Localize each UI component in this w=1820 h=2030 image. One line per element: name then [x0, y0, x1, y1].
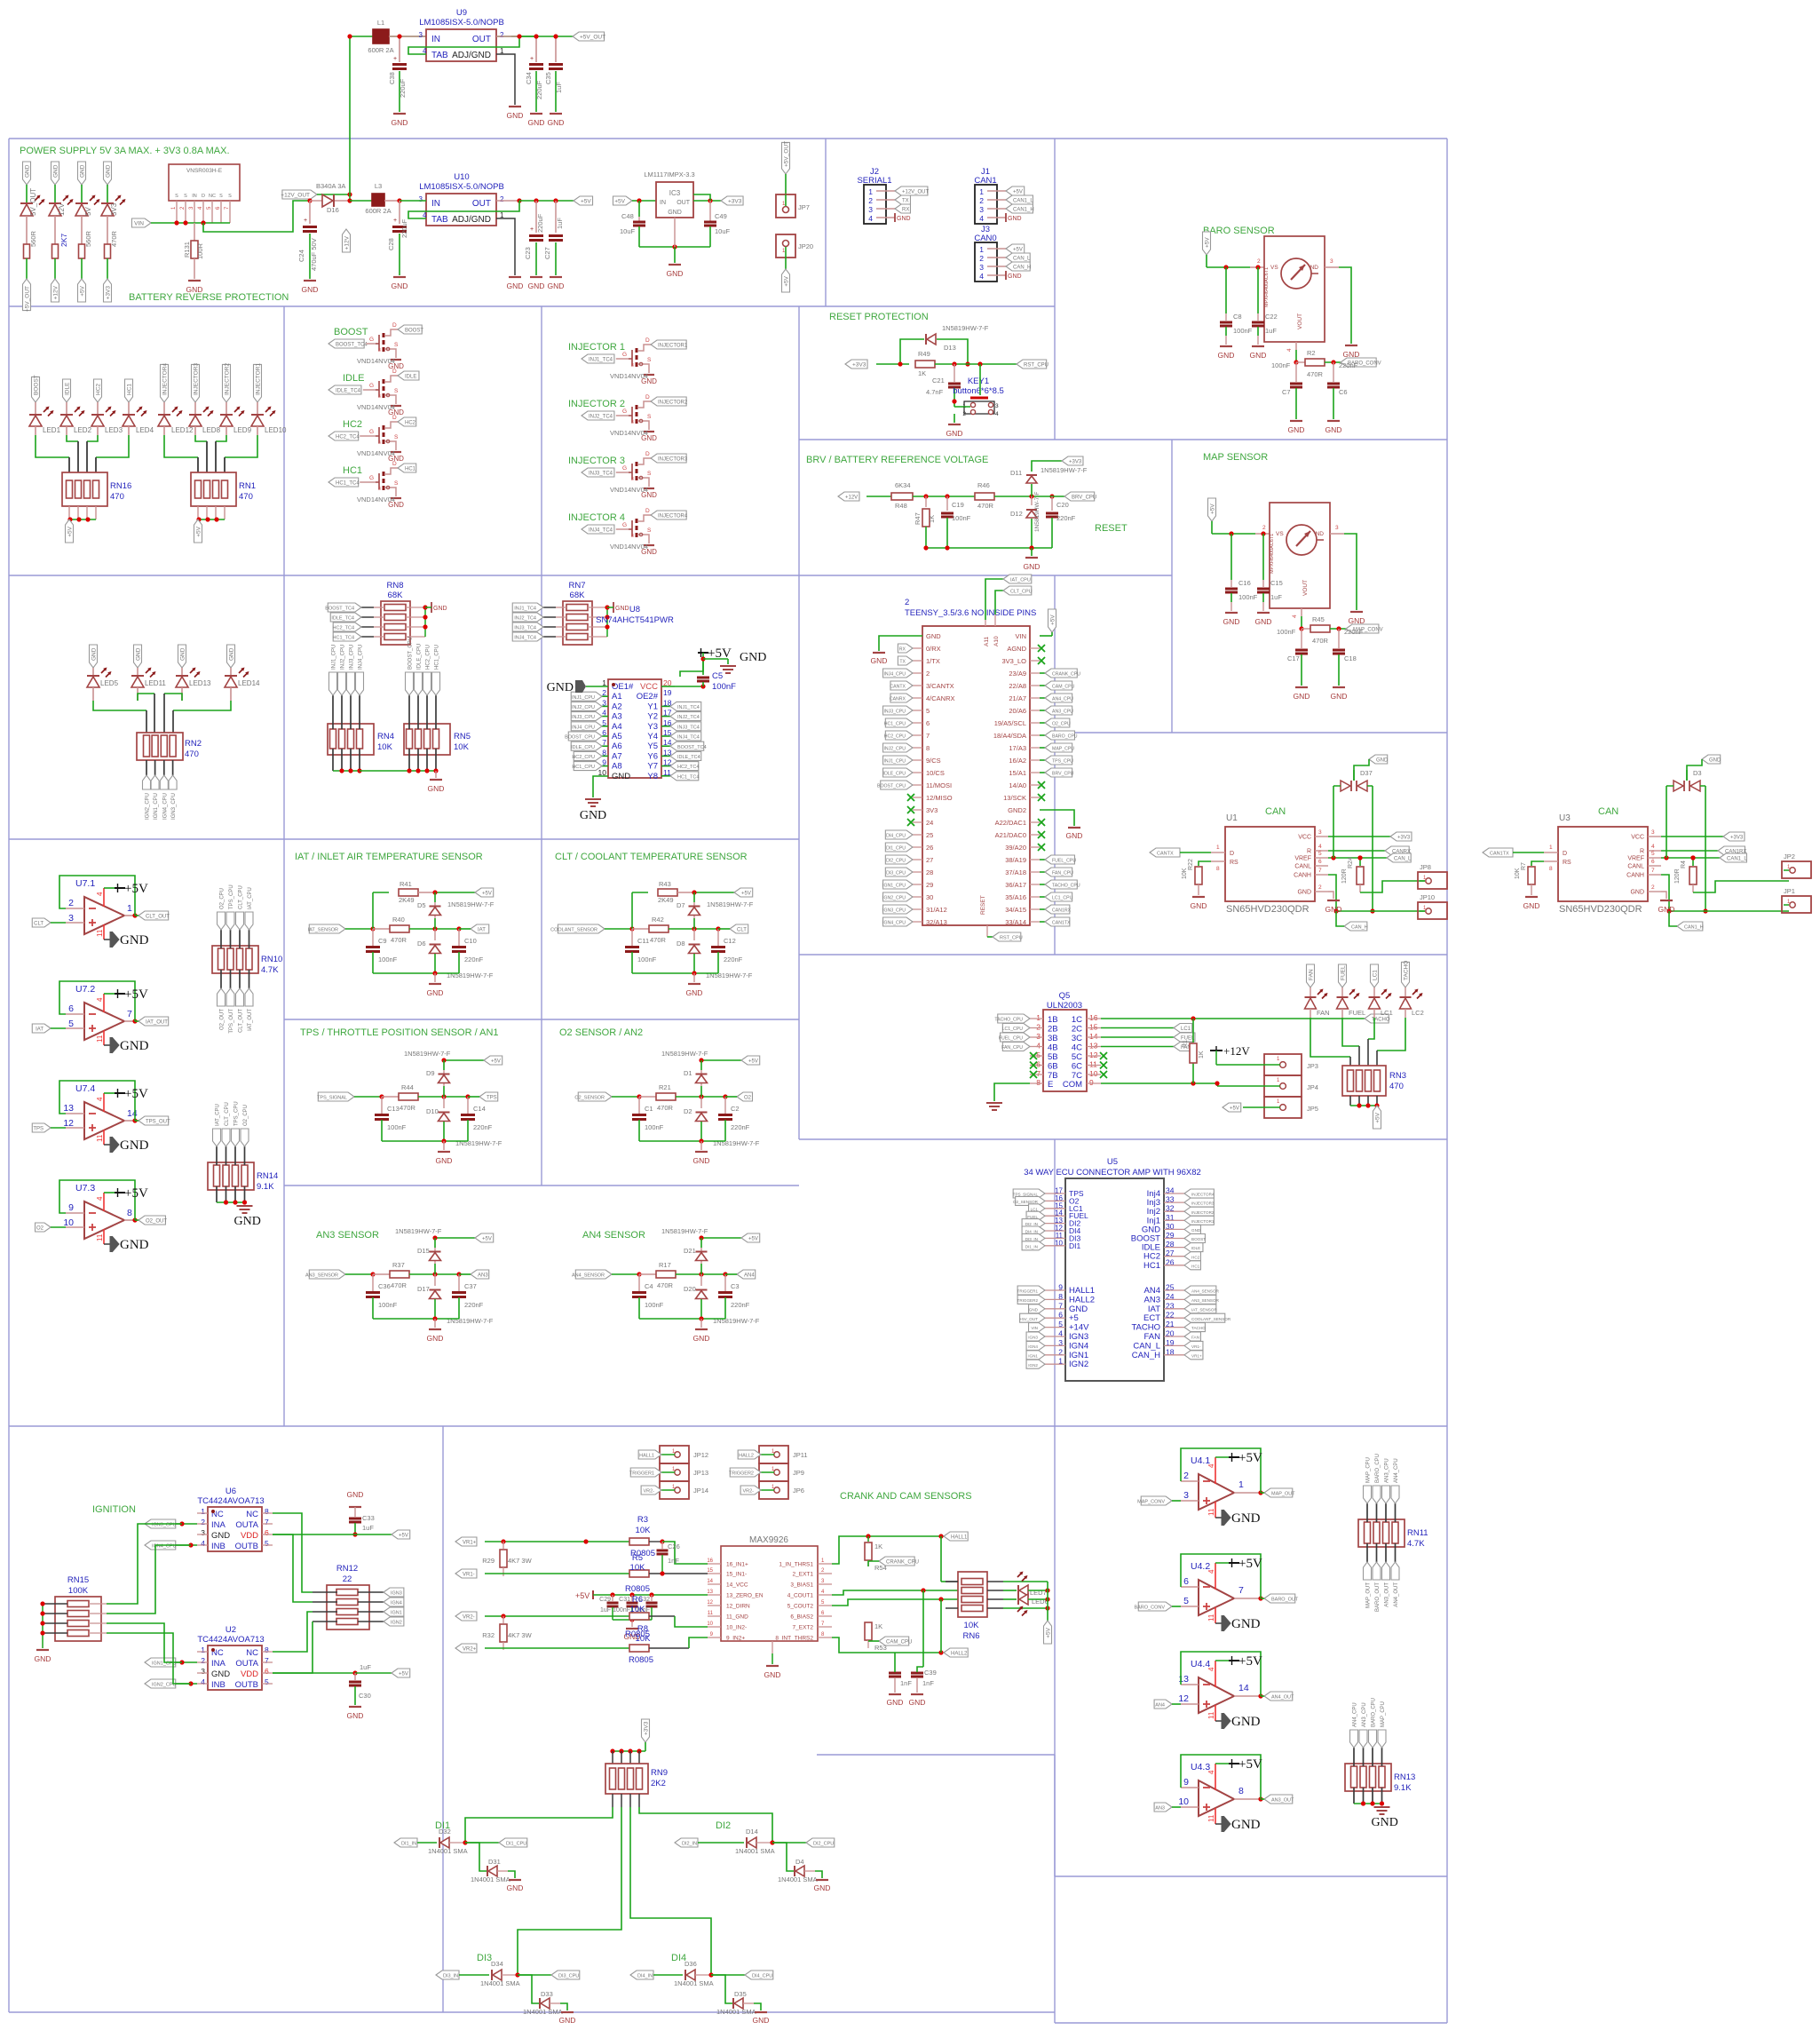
svg-text:INB: INB — [211, 1542, 226, 1551]
led LED10 — [251, 363, 287, 435]
svg-text:36/A17: 36/A17 — [1005, 881, 1026, 889]
svg-text:470R: 470R — [110, 230, 118, 247]
svg-text:IGN4_CPU: IGN4_CPU — [162, 793, 168, 820]
power +12V uln — [1210, 1044, 1254, 1065]
svg-text:GND: GND — [1029, 1307, 1039, 1312]
svg-text:470R: 470R — [400, 1104, 416, 1112]
svg-text:FAN: FAN — [1144, 1332, 1161, 1342]
svg-text:JP10: JP10 — [1420, 893, 1435, 901]
svg-text:FUEL_CPU: FUEL_CPU — [999, 1036, 1023, 1042]
inductor L3 — [350, 182, 402, 215]
capacitor C19 — [941, 496, 971, 548]
flag LC1 row — [1101, 1024, 1192, 1033]
svg-text:6C: 6C — [1072, 1062, 1082, 1072]
svg-text:32/A13: 32/A13 — [926, 918, 947, 926]
svg-text:1N5819HW-7-F: 1N5819HW-7-F — [661, 1227, 708, 1235]
svg-text:E: E — [1048, 1080, 1053, 1090]
svg-text:GND: GND — [1376, 758, 1389, 764]
svg-text:RST_CPU: RST_CPU — [1024, 363, 1048, 369]
svg-text:LC1_CPU: LC1_CPU — [1052, 896, 1073, 901]
gnd BRV — [1024, 548, 1041, 571]
svg-text:100nF: 100nF — [613, 1607, 630, 1614]
regulator U10 — [400, 172, 504, 226]
connector J1 CAN1 — [974, 167, 1033, 224]
svg-text:+5V: +5V — [196, 526, 202, 536]
svg-text:JP13: JP13 — [693, 1469, 708, 1477]
svg-text:10K: 10K — [630, 1563, 646, 1573]
svg-text:37/A18: 37/A18 — [1005, 868, 1026, 876]
svg-text:BOOST_TC4: BOOST_TC4 — [336, 343, 368, 348]
svg-text:BARO_OUT: BARO_OUT — [1271, 1598, 1299, 1603]
jumper JP5 — [1223, 1097, 1318, 1118]
svg-text:7: 7 — [1651, 868, 1655, 874]
svg-text:Q5: Q5 — [1059, 991, 1071, 1001]
transistor driver BOOST — [328, 322, 423, 370]
wire RN6 row1 to HALL1 — [941, 1536, 958, 1582]
svg-text:R42: R42 — [652, 916, 664, 924]
svg-text:11: 11 — [1207, 1814, 1215, 1822]
svg-text:+3V3: +3V3 — [852, 362, 866, 369]
svg-text:O2_CPU: O2_CPU — [220, 888, 226, 909]
svg-text:2B: 2B — [1048, 1025, 1058, 1035]
gnd C5 right — [703, 651, 766, 673]
svg-text:GND: GND — [1223, 617, 1240, 626]
transistor driver IDLE — [328, 369, 419, 416]
svg-text:U3: U3 — [1559, 813, 1571, 823]
svg-text:FAN: FAN — [1191, 1336, 1199, 1340]
capacitor C33 and +5V U6 — [273, 1490, 410, 1539]
svg-text:INJ2_CPU: INJ2_CPU — [341, 645, 346, 670]
svg-text:2: 2 — [1318, 884, 1322, 891]
svg-text:1N5819HW-7-F: 1N5819HW-7-F — [395, 1227, 442, 1235]
wire COM vertical — [1101, 1019, 1217, 1086]
svg-text:IAT_CPU: IAT_CPU — [1010, 578, 1031, 583]
svg-text:2: 2 — [979, 254, 984, 263]
svg-text:CLT_OUT: CLT_OUT — [146, 915, 170, 920]
svg-text:+5V: +5V — [1238, 1654, 1262, 1669]
svg-text:C13: C13 — [387, 1105, 400, 1113]
capacitor C5 — [697, 656, 736, 692]
svg-text:+5V_OUT: +5V_OUT — [784, 141, 790, 167]
svg-text:CLT_CPU: CLT_CPU — [1010, 590, 1033, 595]
wire U10 ADJ GND — [496, 218, 523, 290]
transistor driver INJECTOR 1 — [568, 337, 688, 385]
svg-text:RX: RX — [899, 647, 906, 653]
svg-text:LC1: LC1 — [1181, 1027, 1191, 1032]
svg-text:470R: 470R — [391, 1281, 408, 1289]
svg-text:21/A7: 21/A7 — [1009, 694, 1026, 702]
svg-text:R17: R17 — [659, 1261, 671, 1269]
svg-text:GND: GND — [693, 1334, 710, 1343]
flag IGN3_CPU — [145, 1519, 197, 1528]
svg-text:IGN3: IGN3 — [1028, 1336, 1038, 1340]
svg-text:LM1085ISX-5.0/NOPB: LM1085ISX-5.0/NOPB — [419, 182, 504, 192]
svg-text:1N4001 SMA: 1N4001 SMA — [523, 2008, 563, 2016]
svg-text:+5V_OUT: +5V_OUT — [580, 35, 605, 41]
svg-text:RN14: RN14 — [257, 1171, 278, 1181]
max9926 gnd bottom — [764, 1641, 781, 1679]
power +5V U8 — [661, 646, 732, 689]
svg-text:24: 24 — [926, 819, 933, 827]
svg-text:CLT: CLT — [34, 922, 44, 927]
svg-text:GND: GND — [548, 118, 565, 127]
svg-text:1: 1 — [1036, 1013, 1041, 1022]
svg-text:1nF: 1nF — [668, 1557, 679, 1565]
svg-text:8: 8 — [265, 1507, 269, 1516]
svg-text:+5V: +5V — [1238, 1451, 1262, 1465]
svg-text:INJ1_CPU: INJ1_CPU — [883, 759, 906, 765]
svg-text:10K: 10K — [636, 1634, 652, 1644]
svg-text:D1: D1 — [684, 1069, 692, 1077]
svg-text:+3V3: +3V3 — [644, 1721, 650, 1735]
svg-text:OUTA: OUTA — [235, 1520, 258, 1530]
gnd teensy pin GND — [871, 636, 922, 665]
svg-text:GND: GND — [1231, 1617, 1261, 1631]
diode D11 to +3V3 — [1010, 456, 1088, 496]
gnd C24 — [302, 281, 319, 294]
svg-text:C20: C20 — [1056, 501, 1069, 509]
svg-text:BARO_CONV: BARO_CONV — [1134, 1606, 1165, 1611]
svg-text:HC2: HC2 — [96, 384, 102, 395]
svg-text:+5V: +5V — [748, 1237, 758, 1242]
svg-text:IGN4: IGN4 — [1069, 1341, 1088, 1351]
svg-text:1: 1 — [979, 187, 984, 196]
svg-text:19: 19 — [663, 688, 672, 697]
svg-text:D8: D8 — [677, 940, 685, 948]
jumper JP3 — [1254, 1054, 1318, 1075]
diode cluster DI4 — [630, 1953, 773, 2025]
svg-text:9: 9 — [1089, 1078, 1094, 1087]
svg-text:INJECTOR1: INJECTOR1 — [256, 363, 262, 395]
svg-text:GND: GND — [1024, 562, 1041, 571]
resistor R53 — [865, 1622, 887, 1652]
svg-text:RN5: RN5 — [454, 732, 471, 741]
svg-text:100nF: 100nF — [645, 1123, 664, 1131]
svg-text:HALL1: HALL1 — [1069, 1286, 1095, 1296]
svg-text:R5: R5 — [632, 1553, 643, 1563]
resistor R54 — [865, 1536, 887, 1572]
svg-text:LC2: LC2 — [1412, 1009, 1424, 1017]
gnd Q5 E pin — [986, 1083, 1030, 1110]
svg-text:GND: GND — [507, 282, 524, 290]
svg-text:A11: A11 — [984, 637, 990, 646]
svg-text:6_BIAS2: 6_BIAS2 — [790, 1614, 813, 1621]
svg-text:Y1: Y1 — [647, 702, 658, 711]
svg-text:IAT: IAT — [36, 1027, 44, 1033]
svg-text:68K: 68K — [388, 591, 404, 600]
svg-text:CANL: CANL — [1294, 864, 1311, 870]
svg-text:IDLE: IDLE — [1191, 1246, 1200, 1250]
svg-text:D34: D34 — [491, 1960, 503, 1968]
svg-text:7: 7 — [265, 1656, 269, 1665]
svg-text:+5V: +5V — [784, 275, 790, 286]
svg-text:BRV_CPU: BRV_CPU — [1072, 496, 1096, 501]
svg-text:R7: R7 — [1521, 862, 1527, 870]
svg-text:INJ1_TC4: INJ1_TC4 — [589, 358, 613, 363]
svg-text:R45: R45 — [1312, 615, 1325, 623]
svg-text:S: S — [394, 388, 399, 394]
svg-text:AN4_CPU: AN4_CPU — [1052, 697, 1073, 702]
svg-text:BRV_CPU: BRV_CPU — [1052, 772, 1074, 777]
svg-text:9.1K: 9.1K — [1394, 1783, 1412, 1793]
svg-text:23/A9: 23/A9 — [1009, 670, 1026, 678]
gnd R131 — [186, 281, 203, 294]
svg-text:10uF: 10uF — [620, 227, 636, 235]
svg-text:IGN3_CPU: IGN3_CPU — [171, 793, 177, 820]
svg-text:GND: GND — [814, 1883, 831, 1892]
svg-text:10K: 10K — [636, 1526, 652, 1535]
svg-text:GND: GND — [1288, 425, 1305, 434]
svg-text:C1: C1 — [645, 1105, 653, 1113]
svg-text:RN13: RN13 — [1394, 1772, 1415, 1782]
svg-text:12: 12 — [1089, 1051, 1098, 1059]
svg-text:C30: C30 — [359, 1692, 371, 1700]
svg-text:D37: D37 — [1360, 769, 1373, 777]
svg-text:+5V: +5V — [748, 1059, 758, 1065]
svg-text:9/CS: 9/CS — [926, 757, 941, 765]
svg-text:IGN3_CPU: IGN3_CPU — [882, 908, 906, 914]
svg-text:INJECTOR 2: INJECTOR 2 — [568, 399, 625, 409]
svg-text:D17: D17 — [417, 1285, 430, 1293]
svg-text:GND: GND — [428, 784, 445, 793]
svg-text:IGN1: IGN1 — [1069, 1351, 1088, 1360]
svg-text:RN11: RN11 — [1407, 1528, 1428, 1538]
svg-text:MAP_CPU: MAP_CPU — [1052, 747, 1074, 752]
svg-text:CAN1TX: CAN1TX — [1052, 921, 1071, 926]
svg-text:TX: TX — [902, 199, 909, 204]
svg-text:4.7K: 4.7K — [261, 965, 279, 975]
svg-text:HC2_CPU: HC2_CPU — [884, 734, 906, 740]
svg-text:INJ4_CPU: INJ4_CPU — [359, 645, 364, 670]
svg-text:DI4_IN: DI4_IN — [637, 1974, 653, 1979]
svg-text:1: 1 — [201, 1645, 205, 1654]
svg-text:HC2_TC4: HC2_TC4 — [677, 765, 699, 770]
svg-text:S: S — [647, 527, 652, 534]
svg-text:GND: GND — [1658, 905, 1675, 914]
svg-text:VND14NV04: VND14NV04 — [610, 372, 648, 380]
svg-text:INJECTOR2: INJECTOR2 — [225, 363, 231, 395]
svg-text:29: 29 — [926, 881, 933, 889]
svg-text:INA: INA — [211, 1520, 226, 1530]
svg-text:TPS: TPS — [487, 1096, 497, 1101]
svg-text:1: 1 — [1549, 845, 1553, 851]
wire +5V rail U10 — [519, 198, 574, 202]
svg-text:BOOST_TC4: BOOST_TC4 — [677, 745, 707, 750]
capacitor C38 — [388, 34, 407, 112]
svg-text:JP11: JP11 — [793, 1451, 808, 1459]
flag +3V3 reset — [845, 360, 909, 369]
svg-text:14: 14 — [127, 1108, 138, 1119]
svg-text:3: 3 — [68, 913, 74, 924]
svg-text:LC1: LC1 — [1381, 1009, 1393, 1017]
wire HALL2 line — [832, 1637, 968, 1657]
capacitor C30 and +5V U2 — [273, 1663, 410, 1720]
svg-text:G: G — [622, 352, 627, 358]
flag +3V3 RN9 — [642, 1719, 650, 1751]
svg-text:+12V: +12V — [845, 496, 858, 501]
svg-text:GND: GND — [1255, 617, 1272, 626]
wire RN9 top bus — [610, 1748, 645, 1764]
svg-text:+: + — [393, 56, 397, 62]
svg-text:14: 14 — [707, 1579, 713, 1584]
labels R5 — [625, 1553, 650, 1594]
svg-text:GND: GND — [528, 118, 545, 127]
svg-text:GND: GND — [1191, 901, 1207, 910]
svg-text:6: 6 — [1036, 1060, 1041, 1069]
svg-text:3: 3 — [419, 195, 423, 203]
svg-text:RN15: RN15 — [67, 1575, 89, 1585]
svg-text:VR1-: VR1- — [463, 1573, 475, 1578]
svg-text:HC2_CPU: HC2_CPU — [572, 755, 595, 760]
svg-text:5V_OUT: 5V_OUT — [29, 188, 37, 216]
svg-text:30: 30 — [926, 893, 933, 901]
svg-text:2: 2 — [68, 898, 74, 908]
svg-text:RN1: RN1 — [239, 481, 256, 491]
svg-text:INJ4_CPU: INJ4_CPU — [572, 725, 595, 730]
svg-text:R1: R1 — [1183, 1040, 1189, 1048]
svg-text:GND: GND — [668, 210, 682, 216]
svg-text:6: 6 — [1651, 859, 1655, 865]
svg-text:INJECTOR4: INJECTOR4 — [658, 514, 688, 519]
gnd U8 pin1 left — [547, 680, 608, 694]
svg-text:VREF: VREF — [1294, 856, 1311, 862]
svg-text:220nF: 220nF — [731, 1301, 750, 1309]
svg-text:LC1_CPU: LC1_CPU — [1002, 1027, 1024, 1032]
svg-text:2: 2 — [1257, 258, 1261, 265]
svg-text:VR1+: VR1+ — [463, 1541, 477, 1546]
svg-text:GND: GND — [106, 164, 112, 178]
svg-text:1nF: 1nF — [922, 1679, 934, 1687]
diode D12 — [1010, 492, 1041, 548]
svg-text:GND: GND — [667, 269, 684, 278]
svg-text:INJ3_CPU: INJ3_CPU — [572, 715, 595, 720]
svg-text:D: D — [645, 508, 650, 514]
svg-text:2_EXT1: 2_EXT1 — [793, 1572, 814, 1578]
svg-text:INJ1_TC4: INJ1_TC4 — [514, 607, 536, 612]
svg-text:C17: C17 — [1287, 654, 1300, 662]
svg-text:3: 3 — [201, 1667, 205, 1676]
svg-text:GND: GND — [211, 1669, 230, 1679]
svg-text:5C: 5C — [1072, 1052, 1082, 1062]
IC Teensy 3.5/3.6 — [877, 598, 1080, 926]
svg-text:S: S — [394, 342, 399, 348]
svg-text:O2_CPU: O2_CPU — [243, 1105, 249, 1126]
svg-text:22: 22 — [343, 1574, 352, 1584]
svg-text:IDLE_TC4: IDLE_TC4 — [336, 389, 361, 394]
svg-text:11: 11 — [1089, 1060, 1097, 1069]
svg-text:D14: D14 — [746, 1828, 758, 1836]
svg-text:+5V: +5V — [124, 1087, 148, 1101]
jumpers JP12 JP13 JP14 — [629, 1446, 708, 1499]
svg-text:1N5819HW-7-F: 1N5819HW-7-F — [661, 1050, 708, 1058]
svg-text:12V: 12V — [58, 202, 66, 216]
svg-text:IN: IN — [431, 35, 440, 44]
svg-text:220uF: 220uF — [399, 78, 407, 98]
svg-text:FAN_CPU: FAN_CPU — [1001, 1045, 1023, 1051]
svg-text:D31: D31 — [488, 1858, 501, 1866]
resistor network RN15 — [35, 1575, 107, 1663]
svg-text:GND: GND — [887, 1698, 904, 1707]
svg-text:GND: GND — [548, 282, 565, 290]
svg-text:6: 6 — [926, 719, 930, 727]
svg-text:C26: C26 — [668, 1542, 680, 1550]
svg-text:RST_CPU: RST_CPU — [1000, 936, 1023, 941]
svg-text:C28: C28 — [387, 238, 395, 250]
svg-text:IGN1_CPU: IGN1_CPU — [882, 884, 906, 889]
svg-text:9: 9 — [68, 1202, 74, 1213]
svg-text:6K34: 6K34 — [895, 481, 911, 489]
title RESET label — [1095, 523, 1128, 534]
svg-text:RN4: RN4 — [377, 732, 394, 741]
svg-text:100nF: 100nF — [378, 1301, 398, 1309]
wire cap connectors crank — [895, 1653, 923, 1672]
svg-text:1uF: 1uF — [600, 1607, 611, 1614]
svg-text:AN3_CPU: AN3_CPU — [1385, 1458, 1390, 1483]
svg-text:HALL2: HALL2 — [739, 1454, 754, 1459]
svg-text:IDLE: IDLE — [65, 382, 71, 395]
svg-text:MAP_CPU: MAP_CPU — [1381, 1701, 1386, 1727]
svg-text:MAP SENSOR: MAP SENSOR — [1203, 452, 1268, 463]
svg-text:GND: GND — [234, 1215, 261, 1228]
svg-text:A7: A7 — [612, 751, 622, 761]
svg-text:IGN2: IGN2 — [391, 1621, 402, 1626]
flag VR1- and R5 — [455, 1569, 708, 1578]
svg-text:GND: GND — [53, 164, 59, 178]
svg-text:33/A14: 33/A14 — [1005, 918, 1026, 926]
svg-text:R3: R3 — [637, 1515, 648, 1525]
svg-text:C35: C35 — [544, 72, 552, 84]
svg-text:D6: D6 — [417, 940, 426, 948]
svg-text:3: 3 — [378, 440, 381, 446]
inductor L1 — [368, 19, 426, 54]
svg-text:1N4001 SMA: 1N4001 SMA — [480, 1979, 520, 1987]
svg-text:470R: 470R — [650, 936, 667, 944]
svg-text:GND: GND — [1325, 905, 1342, 914]
svg-text:2: 2 — [1036, 1023, 1041, 1032]
svg-text:100nF: 100nF — [645, 1301, 664, 1309]
resistor network RN10 — [212, 884, 282, 1033]
svg-text:C18: C18 — [1344, 654, 1357, 662]
flag +12V_OUT — [281, 190, 352, 199]
svg-text:1uF: 1uF — [1270, 593, 1282, 601]
resistor network RN11 — [1358, 1454, 1428, 1612]
svg-text:5: 5 — [1318, 851, 1322, 857]
svg-text:CAN1RX: CAN1RX — [1052, 908, 1072, 914]
svg-text:3V3: 3V3 — [110, 202, 118, 216]
svg-text:CAN1_L: CAN1_L — [1727, 857, 1747, 862]
svg-text:INJECTOR1: INJECTOR1 — [1191, 1219, 1215, 1224]
svg-text:D4: D4 — [795, 1858, 804, 1866]
svg-text:8: 8 — [926, 744, 930, 752]
flag +12V hanging — [343, 229, 351, 252]
svg-text:BOOST_TC4: BOOST_TC4 — [325, 607, 354, 612]
svg-text:CANH: CANH — [1294, 873, 1311, 879]
svg-text:RN3: RN3 — [1389, 1071, 1406, 1081]
svg-text:HC1: HC1 — [1143, 1261, 1160, 1271]
svg-text:IAT / INLET AIR TEMPERATURE SE: IAT / INLET AIR TEMPERATURE SENSOR — [295, 852, 483, 862]
svg-text:4: 4 — [1318, 844, 1322, 850]
svg-text:TEENSY_3.5/3.6 NO INSIDE PINS: TEENSY_3.5/3.6 NO INSIDE PINS — [905, 608, 1036, 618]
svg-text:7: 7 — [1318, 868, 1322, 874]
svg-text:GND: GND — [580, 809, 606, 822]
svg-text:U10: U10 — [454, 172, 469, 182]
svg-text:2: 2 — [500, 195, 504, 203]
svg-text:GND: GND — [528, 282, 545, 290]
svg-text:IGN1_CPU: IGN1_CPU — [154, 793, 159, 820]
svg-text:100R: 100R — [196, 242, 204, 259]
svg-text:D10: D10 — [426, 1107, 439, 1115]
svg-text:C39: C39 — [924, 1669, 937, 1677]
